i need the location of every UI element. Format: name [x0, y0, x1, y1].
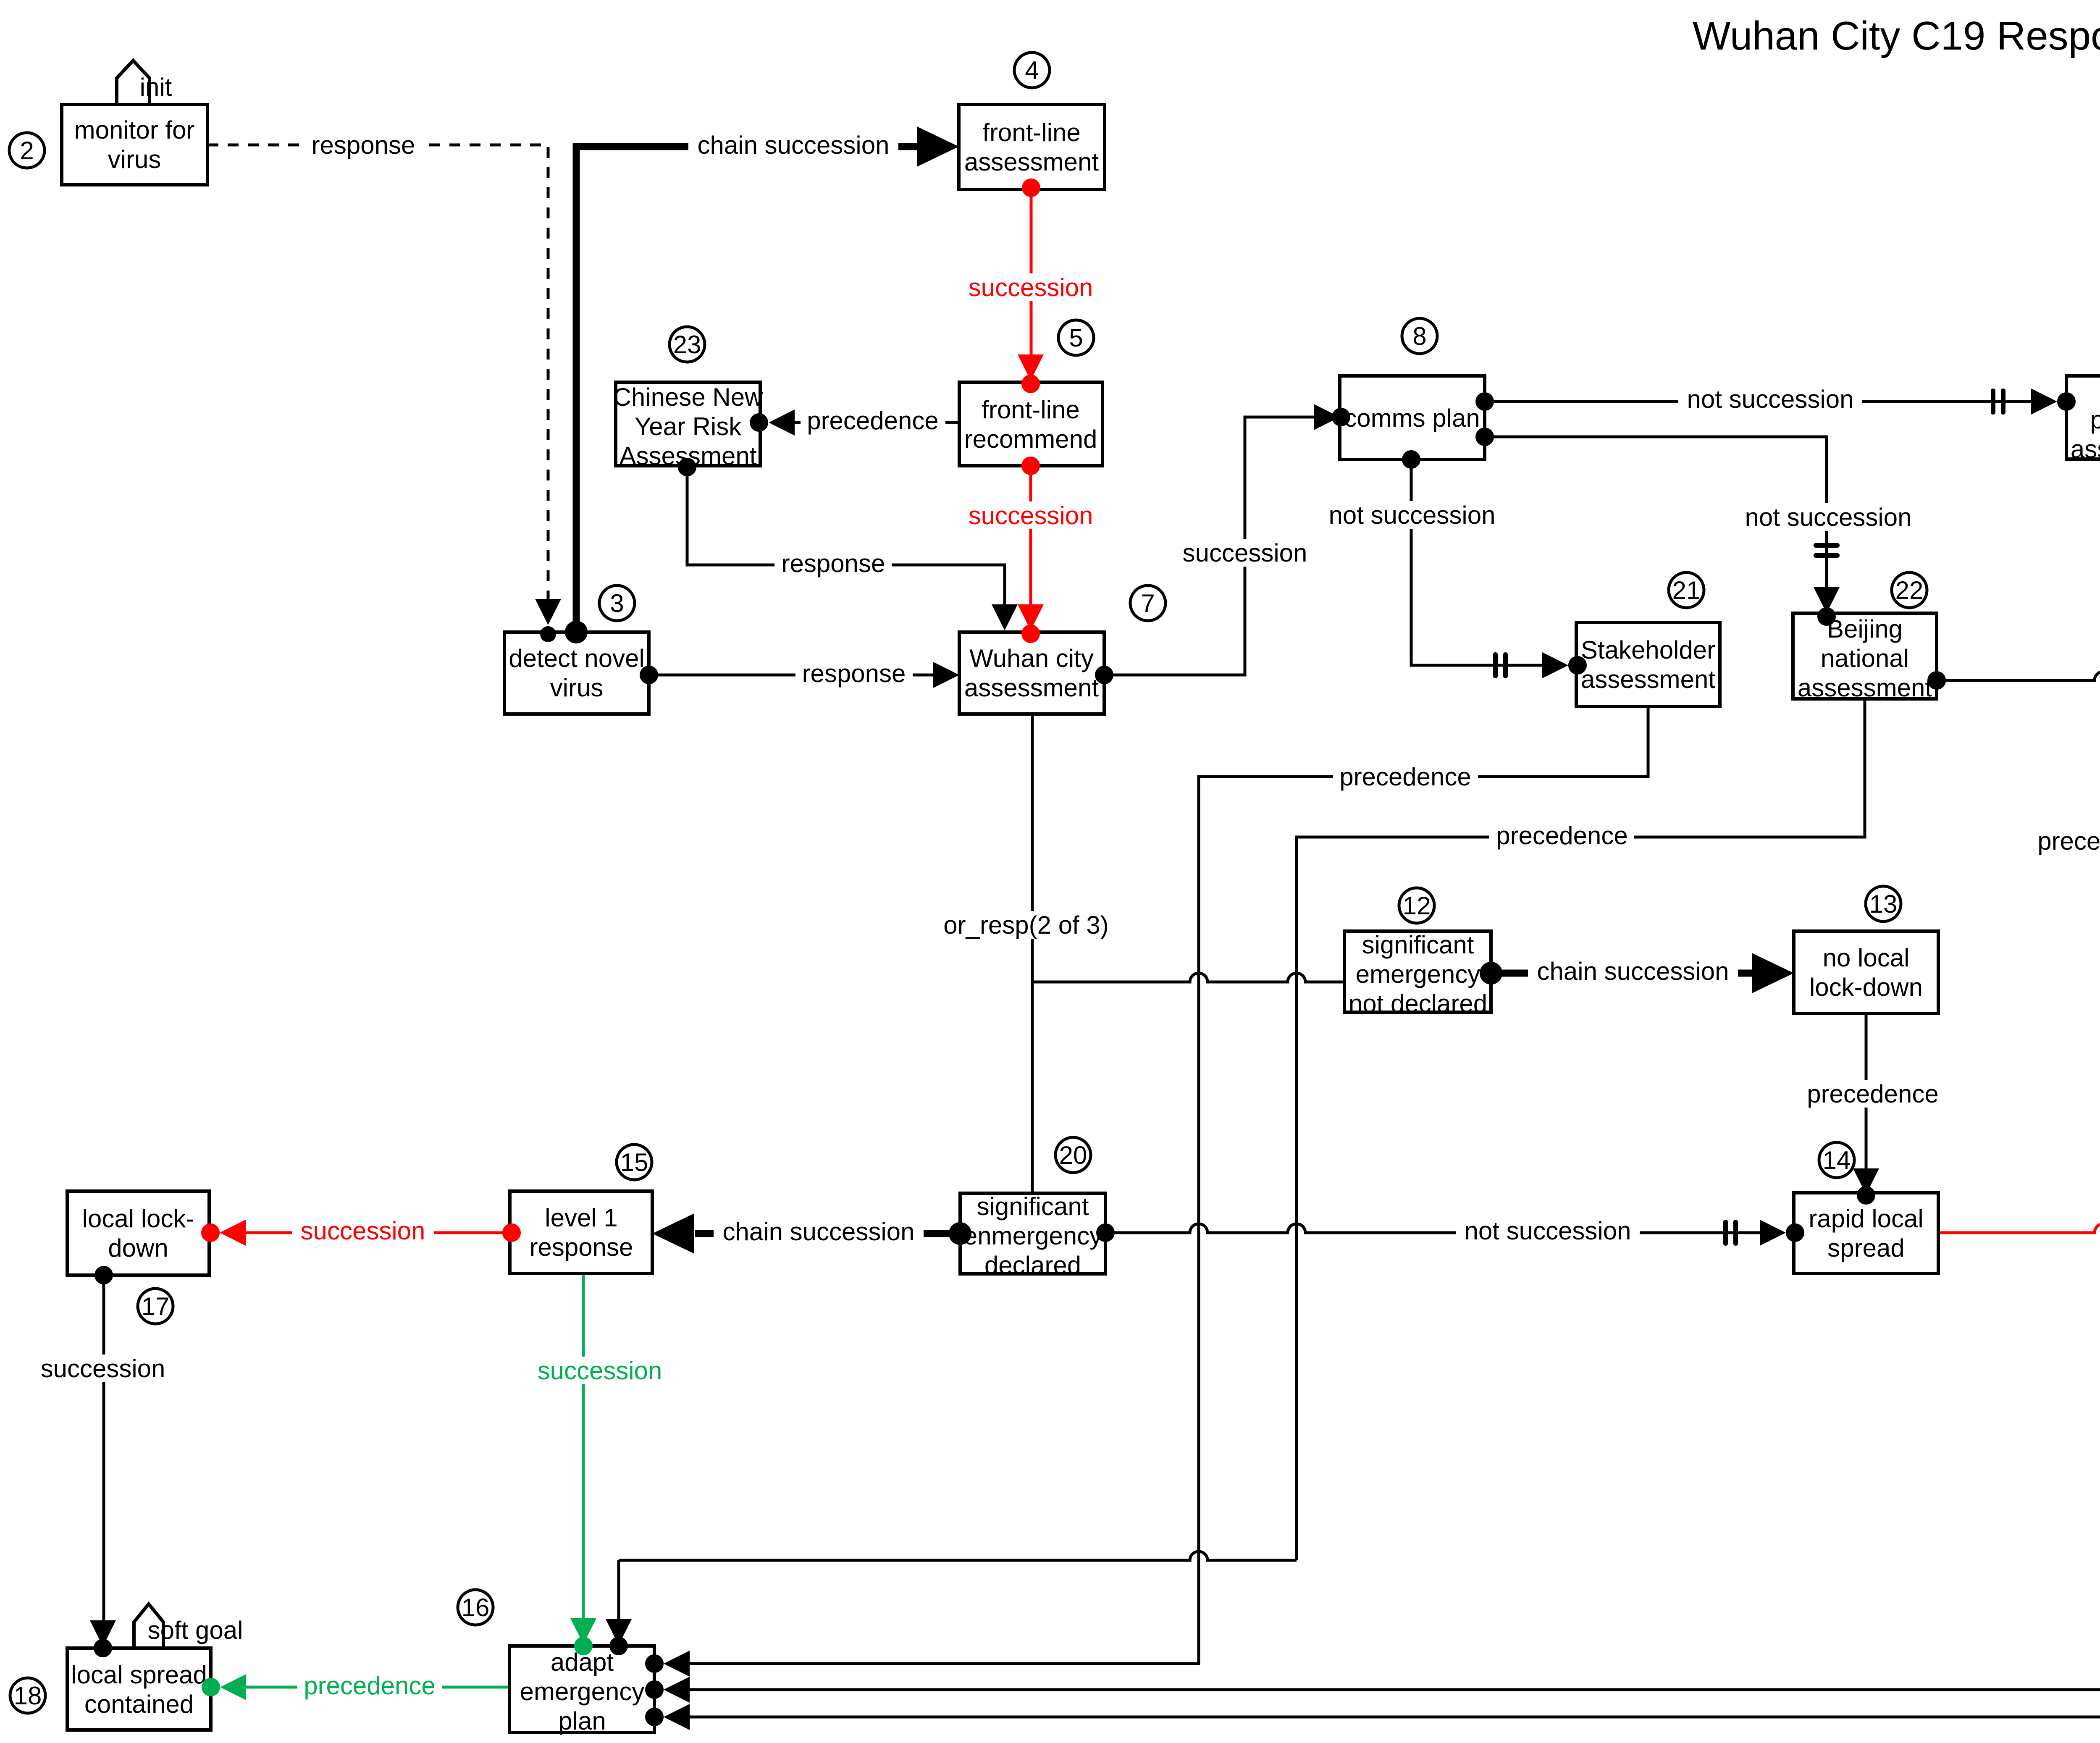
- svg-text:assessment: assessment: [1798, 674, 1932, 702]
- svg-text:assessment: assessment: [1581, 665, 1715, 693]
- box 4: front-line assessment: [959, 105, 1105, 189]
- box 12: significant emergency not declared: [1344, 931, 1491, 1018]
- edge: precedence stakeholder-assessment -> adapt-emergency-plan: [645, 706, 1648, 1677]
- svg-text:12: 12: [1403, 892, 1431, 920]
- badge 23: [669, 327, 705, 362]
- badge 13: [1866, 886, 1901, 921]
- svg-text:soft goal: soft goal: [148, 1616, 243, 1644]
- svg-text:or_resp(2 of 3): or_resp(2 of 3): [943, 911, 1109, 939]
- svg-text:not declared: not declared: [1349, 990, 1487, 1018]
- svg-text:comms plan: comms plan: [1344, 404, 1480, 432]
- svg-text:succession: succession: [969, 273, 1093, 302]
- badge 16: [458, 1590, 493, 1625]
- svg-text:assessment: assessment: [964, 148, 1099, 176]
- svg-text:front-line: front-line: [982, 118, 1080, 147]
- svg-text:not succession: not succession: [1465, 1217, 1631, 1245]
- box 15: level 1 response: [510, 1191, 652, 1273]
- edge: response chinese-new-year-risk-assessment -> wuhan-city-assessment: [678, 458, 1018, 630]
- svg-text:5: 5: [1069, 324, 1083, 352]
- svg-text:22: 22: [1895, 576, 1924, 604]
- badge 4: [1014, 52, 1050, 88]
- badge 3: [599, 585, 635, 621]
- box 20: significant enmergency declared: [960, 1192, 1105, 1279]
- soft goal marker on local-spread-contained: [134, 1604, 243, 1648]
- svg-text:precedence: precedence: [1496, 822, 1628, 850]
- svg-text:rapid local: rapid local: [1809, 1205, 1924, 1233]
- box 2: monitor for virus: [62, 105, 207, 185]
- box 18: local spread contained: [67, 1648, 211, 1730]
- svg-text:succession: succession: [41, 1354, 165, 1383]
- svg-text:init: init: [140, 73, 172, 101]
- svg-text:precedence: precedence: [2037, 827, 2100, 855]
- edge: chain succession significant-emergency-not-declared -> no-local-lock-down (thick): [1480, 953, 1794, 993]
- badge 2: [9, 133, 45, 168]
- svg-text:succession: succession: [969, 501, 1093, 530]
- badge 8: [1402, 318, 1437, 354]
- edge: response detect-novel-virus -> wuhan-city-assessment: [640, 659, 959, 688]
- svg-text:precedence: precedence: [304, 1672, 436, 1700]
- box 8: comms plan: [1340, 376, 1485, 459]
- svg-text:not succession: not succession: [1687, 385, 1854, 413]
- edge: succession level-1-response -> local-lock-down (red): [201, 1217, 521, 1246]
- svg-text:response: response: [802, 659, 906, 688]
- badge 20: [1055, 1137, 1091, 1173]
- svg-text:declared: declared: [984, 1251, 1081, 1279]
- svg-text:level 1: level 1: [545, 1204, 617, 1232]
- edge: not succession significant-enmergency-declared -> rapid-local-spread: [1096, 1217, 1804, 1246]
- edge: succession wuhan-city-assessment -> comms-plan: [1095, 404, 1350, 684]
- edge: precedence hubei-province-assessment -> adapt-emergency-plan: [645, 459, 2100, 1703]
- badge 15: [617, 1144, 652, 1180]
- svg-text:14: 14: [1823, 1146, 1851, 1174]
- svg-text:response: response: [312, 131, 415, 159]
- init marker on monitor-for-virus: [117, 60, 172, 105]
- badge 22: [1892, 572, 1927, 608]
- box 21: Stakeholder assessment: [1576, 622, 1720, 706]
- badge 17: [138, 1289, 173, 1324]
- edge: succession local-lock-down -> local-spread-contained: [32, 1266, 174, 1657]
- svg-text:plan: plan: [558, 1707, 606, 1735]
- svg-text:no local: no local: [1823, 944, 1910, 972]
- svg-text:succession: succession: [538, 1357, 662, 1385]
- svg-text:chain succession: chain succession: [723, 1218, 915, 1246]
- svg-text:4: 4: [1025, 56, 1039, 84]
- svg-text:8: 8: [1412, 322, 1426, 350]
- svg-text:succession: succession: [1183, 539, 1307, 567]
- svg-text:Year Risk: Year Risk: [635, 412, 742, 441]
- svg-text:recommend: recommend: [964, 425, 1097, 453]
- svg-text:not succession: not succession: [1329, 501, 1496, 529]
- svg-text:national: national: [1821, 644, 1909, 672]
- svg-text:significant: significant: [977, 1192, 1089, 1221]
- svg-text:significant: significant: [1362, 931, 1474, 959]
- svg-text:Chinese New: Chinese New: [613, 383, 764, 411]
- edge: precedence no-local-lock-down -> rapid-local-spread: [1800, 1013, 1945, 1205]
- svg-text:contained: contained: [84, 1690, 194, 1718]
- svg-text:17: 17: [142, 1292, 170, 1320]
- box 17: local lock-down: [67, 1191, 209, 1275]
- svg-text:virus: virus: [108, 145, 161, 173]
- edge: not succession comms-plan -> beijing-national-assessment: [1475, 428, 1920, 626]
- svg-text:succession: succession: [301, 1217, 425, 1245]
- edge: precedence adapt-emergency-plan -> local-spread-contained (green): [202, 1672, 509, 1700]
- svg-text:monitor for: monitor for: [74, 116, 195, 144]
- svg-text:lock-down: lock-down: [1809, 973, 1923, 1001]
- svg-text:emergency: emergency: [1356, 960, 1480, 988]
- svg-text:emergency: emergency: [520, 1677, 645, 1706]
- svg-text:Wuhan City C19 Response “to-be: Wuhan City C19 Response “to-be” v5v.R2d(…: [1693, 13, 2100, 58]
- svg-text:response: response: [530, 1233, 633, 1261]
- badge 18: [10, 1678, 45, 1713]
- svg-text:13: 13: [1869, 890, 1898, 918]
- svg-text:18: 18: [14, 1682, 42, 1710]
- svg-text:20: 20: [1059, 1141, 1087, 1169]
- svg-text:down: down: [108, 1234, 168, 1262]
- edge: precedence beijing-national-assessment -> adapt-emergency-plan: [606, 699, 1865, 1655]
- box 3: detect novel virus: [504, 632, 649, 714]
- box 7: Wuhan city assessment: [959, 632, 1104, 714]
- svg-text:local lock-: local lock-: [82, 1205, 194, 1233]
- box 22: Beijing national assessment: [1793, 613, 1937, 702]
- edge: response beijing-national-assessment -> who-assessment: [1927, 665, 2100, 693]
- box 16: adapt emergency plan: [509, 1646, 654, 1735]
- svg-text:21: 21: [1672, 576, 1701, 604]
- svg-text:precedence: precedence: [807, 407, 939, 435]
- edge: succession front-line-recommend -> wuhan-city-assessment (red): [960, 457, 1102, 643]
- svg-text:precedence: precedence: [1807, 1080, 1939, 1108]
- svg-text:virus: virus: [550, 674, 604, 702]
- svg-text:spread: spread: [1827, 1234, 1904, 1262]
- box 9: Hubei province assessment: [2066, 376, 2100, 463]
- edge: precedence rapid-local-spread -> asymptomatic-persons-leave-wuhan (red): [1938, 957, 2100, 1233]
- svg-text:assessment: assessment: [2071, 435, 2100, 463]
- svg-text:7: 7: [1141, 589, 1155, 617]
- edge: precedence front-line-recommend -> chinese-new-year-risk-assessment: [750, 407, 959, 436]
- badge 7: [1130, 585, 1165, 621]
- edge: succession level-1-response -> adapt-emergency-plan (green): [529, 1273, 671, 1655]
- svg-text:2: 2: [20, 136, 34, 165]
- svg-text:response: response: [782, 549, 885, 577]
- box 13: no local lock-down: [1794, 931, 1938, 1013]
- svg-text:local spread: local spread: [71, 1661, 207, 1689]
- badge 14: [1819, 1142, 1854, 1178]
- box 14: rapid local spread: [1794, 1193, 1938, 1273]
- box 5: front-line recommend: [959, 382, 1102, 466]
- edge: not succession comms-plan -> hubei-province-assessment: [1475, 385, 2076, 415]
- svg-text:16: 16: [462, 1593, 490, 1622]
- svg-text:chain succession: chain succession: [698, 131, 890, 159]
- edge: not succession comms-plan -> stakeholder-assessment: [1320, 450, 1587, 678]
- badge 21: [1669, 572, 1704, 608]
- edge: succession front-line-assessment -> front-line-recommend (red): [960, 178, 1102, 393]
- edge: precedence who-assessment -> adapt-emergency-plan: [645, 706, 2100, 1730]
- svg-text:assessment: assessment: [964, 674, 1099, 702]
- svg-text:chain succession: chain succession: [1537, 957, 1729, 985]
- box 23: Chinese New Year Risk Assessment: [613, 382, 764, 470]
- svg-text:not succession: not succession: [1745, 503, 1912, 531]
- svg-text:detect novel: detect novel: [509, 644, 645, 672]
- svg-text:Wuhan city: Wuhan city: [969, 644, 1094, 672]
- edge: or_resp(2 of 3) wuhan-city-assessment -> significant-emergency-not-declared / significant-enmergency-declared: [938, 714, 1344, 1193]
- edge: chain succession detect-novel-virus -> front-line-assessment (thick): [565, 126, 959, 643]
- svg-text:front-line: front-line: [982, 396, 1079, 424]
- svg-text:15: 15: [620, 1148, 648, 1176]
- svg-text:3: 3: [610, 589, 624, 617]
- badge 12: [1399, 888, 1434, 923]
- svg-text:Stakeholder: Stakeholder: [1581, 636, 1715, 664]
- edge: chain succession significant-enmergency-declared -> level-1-response (thick): [652, 1213, 971, 1254]
- badge 5: [1058, 320, 1094, 355]
- svg-text:province: province: [2090, 406, 2100, 434]
- svg-text:enmergency: enmergency: [963, 1222, 1102, 1250]
- svg-text:23: 23: [673, 331, 701, 359]
- svg-text:precedence: precedence: [1339, 763, 1471, 791]
- svg-text:Beijing: Beijing: [1827, 615, 1903, 643]
- edge: response monitor-for-virus -> detect-novel-virus (dashed): [207, 131, 561, 642]
